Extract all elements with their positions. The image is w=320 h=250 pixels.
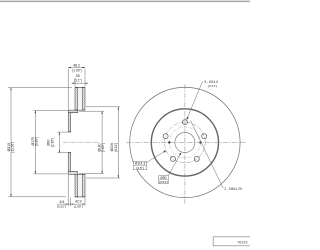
dim Ø175 hat diameter	[33, 110, 67, 173]
hat inner face line bottom	[71, 171, 78, 173]
vent root line top	[75, 109, 85, 111]
section centerline	[63, 141, 100, 143]
lug hole upper-left	[163, 134, 168, 139]
title block	[213, 237, 251, 246]
svg-text:[6.89"]: [6.89"]	[35, 137, 39, 146]
M8 hole right	[199, 141, 201, 143]
center bore edge top	[68, 131, 71, 133]
center bore edge bottom	[68, 152, 71, 154]
label 2 - M8x1.25 leader	[191, 121, 224, 189]
outer circle	[130, 87, 240, 197]
svg-text:[8.11"]: [8.11"]	[114, 143, 118, 152]
vertical centerline	[184, 85, 186, 204]
M8 circle Ø90 (dash-dot)	[169, 127, 200, 158]
svg-text:48.2: 48.2	[73, 63, 80, 67]
svg-text:28: 28	[76, 74, 80, 78]
hat inner face line top	[71, 112, 78, 114]
rotor OD edge top	[75, 87, 85, 89]
svg-text:[1.1"]: [1.1"]	[74, 78, 81, 82]
friction plate inboard (top half, hatched)	[82, 88, 85, 111]
svg-text:[0.57"]: [0.57"]	[208, 84, 217, 88]
center bore	[175, 132, 195, 152]
boxed label Ø90 M8 circle	[159, 153, 182, 184]
svg-text:[12.56"]: [12.56"]	[11, 142, 15, 153]
friction plate inboard (bottom half, hatched)	[82, 174, 85, 197]
vent root line bottom	[75, 173, 85, 175]
svg-text:[3.54"]: [3.54"]	[159, 180, 168, 184]
hat wall (top, hatched)	[68, 110, 78, 113]
dim 28 friction band width	[72, 78, 87, 87]
M8 hole left	[168, 141, 170, 143]
svg-text:2 - M8x1.25: 2 - M8x1.25	[224, 187, 242, 191]
svg-text:[1.69"]: [1.69"]	[74, 205, 83, 209]
lug hole upper-right	[202, 134, 207, 139]
svg-text:[4.5"]: [4.5"]	[136, 166, 143, 170]
dim 6.5 flange thickness	[57, 175, 85, 206]
hat circle	[151, 109, 218, 176]
svg-text:6.5: 6.5	[60, 200, 65, 204]
dim Ø319 outer diameter	[8, 88, 72, 197]
vent vane hidden line bottom	[79, 175, 81, 197]
dim Ø60 center bore	[57, 132, 68, 153]
svg-text:[0.25"]: [0.25"]	[57, 205, 66, 209]
lug hole lower-right	[194, 156, 199, 161]
dim 48.2 overall width	[68, 68, 85, 111]
svg-text:[1.90"]: [1.90"]	[72, 69, 81, 73]
top page border	[0, 0, 250, 2]
rotor OD edge bottom	[75, 196, 85, 198]
hat wall (bottom, hatched)	[68, 172, 78, 175]
dim Ø206 friction surface (line B)	[86, 107, 120, 178]
bolt circle (dash-dot)	[165, 122, 206, 163]
hat mounting flange (upper half, hatched)	[68, 113, 71, 132]
lug hole lower-left	[171, 156, 176, 161]
dim Ø180 friction inner (line A)	[79, 111, 104, 173]
svg-text:[7.09"]: [7.09"]	[101, 143, 105, 152]
horizontal centerline	[126, 141, 247, 143]
vent vane hidden line top	[79, 88, 81, 110]
boxed label Ø114.3 bolt circle	[134, 151, 167, 170]
friction plate outboard (bottom half, hatched)	[75, 174, 78, 197]
hat mounting flange (lower half, hatched)	[68, 153, 71, 172]
lug hole top	[182, 120, 187, 125]
label 5 - Ø14.6 leader	[187, 81, 203, 119]
friction plate outboard (top half, hatched)	[75, 88, 78, 111]
svg-text:42.9: 42.9	[75, 200, 82, 204]
svg-text:[2.36"]: [2.36"]	[51, 138, 55, 147]
svg-text:76129: 76129	[237, 240, 247, 244]
